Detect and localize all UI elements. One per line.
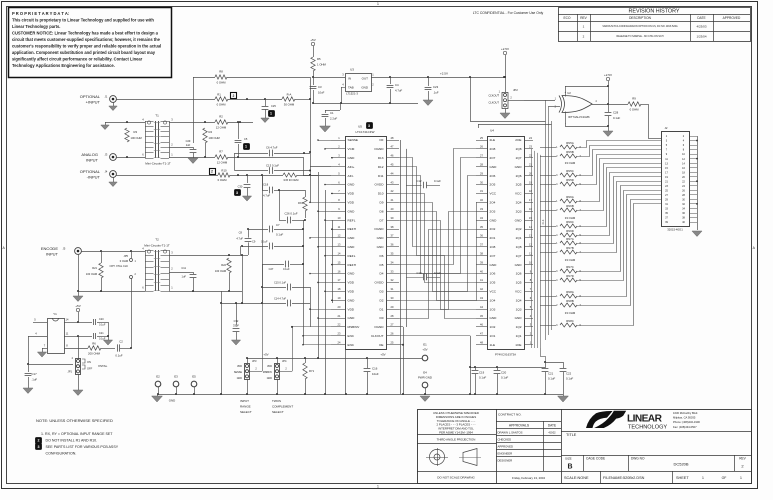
svg-text:U5: U5	[358, 124, 362, 128]
svg-text:PWR GND: PWR GND	[418, 376, 432, 380]
svg-text:P74VCX16373A: P74VCX16373A	[495, 353, 516, 357]
connector ground rail	[697, 136, 699, 228]
U5 pin 9 GND	[331, 211, 345, 213]
U4 pin 29 2O6	[476, 175, 487, 177]
U4 pin 39 GND	[476, 264, 487, 266]
svg-text:2Q4: 2Q4	[516, 201, 522, 205]
svg-text:GND: GND	[490, 263, 498, 267]
JP2 ground	[505, 109, 507, 114]
title block frame	[418, 410, 752, 484]
svg-text:IDT74ALVC1G86: IDT74ALVC1G86	[568, 115, 590, 119]
U5 pin 32 OVDD	[386, 282, 399, 284]
svg-text:VCC: VCC	[490, 290, 497, 294]
capacitor C1 2.2uF	[340, 103, 342, 110]
svg-text:1Q5: 1Q5	[516, 281, 522, 285]
svg-text:C13 0.1uF: C13 0.1uF	[266, 163, 279, 167]
svg-text:1/23/04: 1/23/04	[696, 34, 706, 38]
wire OGND route x403	[399, 326, 403, 328]
U4 pin 4 GND	[524, 318, 533, 320]
wire stub to U5 pin 12	[310, 237, 331, 239]
wire stub to U5 pin 1	[318, 140, 331, 142]
cap rail y367	[470, 367, 545, 369]
svg-text:+2.5V: +2.5V	[604, 73, 612, 77]
svg-text:JP4: JP4	[282, 359, 287, 363]
note box 1 at C5	[244, 144, 250, 150]
note box 2 at R10	[210, 169, 216, 175]
wire J3 to T1	[116, 157, 145, 159]
svg-text:4/2/02: 4/2/02	[548, 431, 556, 435]
svg-text:JP5: JP5	[124, 254, 129, 258]
svg-text:RX1: RX1	[298, 201, 304, 205]
resistor R4 100 OHM	[203, 128, 207, 143]
U4 pin 13 2Q1	[524, 237, 533, 239]
svg-text:SENSE: SENSE	[348, 138, 359, 142]
U4 pin 36 2O1	[476, 237, 487, 239]
svg-text:REFL: REFL	[348, 218, 356, 222]
svg-text:SIZE: SIZE	[565, 457, 572, 461]
U5 pin 47 OGND	[386, 148, 399, 150]
svg-text:1uF: 1uF	[182, 275, 187, 279]
svg-text:1: 1	[377, 485, 379, 489]
U4 pin 47 1O1	[476, 335, 487, 337]
svg-text:circuit that meets customer-su: circuit that meets customer-supplied spe…	[12, 37, 161, 42]
svg-text:R6: R6	[92, 342, 96, 346]
svg-text:DWG NO: DWG NO	[631, 457, 645, 461]
xor power top	[565, 86, 567, 97]
svg-text:R7: R7	[219, 150, 223, 154]
capacitor C4 4.7uF	[390, 77, 392, 84]
svg-text:CONFIGURATION.: CONFIGURATION.	[46, 452, 77, 456]
wire stub to U5 pin 19	[331, 300, 332, 302]
svg-text:1630 McCarthy Blvd.: 1630 McCarthy Blvd.	[673, 411, 698, 415]
svg-text:0.1uF: 0.1uF	[283, 267, 290, 271]
svg-text:E3: E3	[174, 374, 178, 378]
wire D bus row 8 to row 18	[399, 203, 476, 292]
svg-text:0.1uF: 0.1uF	[434, 179, 441, 183]
U5 pin 46 D13	[386, 157, 399, 159]
svg-text:D12: D12	[378, 165, 384, 169]
svg-text:2: 2	[211, 169, 213, 173]
svg-text:U4: U4	[490, 129, 494, 133]
svg-text:VCM: VCM	[348, 147, 355, 151]
svg-text:C20: C20	[501, 370, 507, 374]
svg-text:C5: C5	[244, 137, 248, 141]
+5V rail to E1	[247, 358, 421, 360]
capacitor C3 10uF	[310, 86, 317, 88]
svg-text:1Q1: 1Q1	[516, 334, 522, 338]
capacitor C17 .1uF	[28, 364, 30, 372]
svg-text:D5: D5	[380, 263, 384, 267]
svg-text:200 OHM: 200 OHM	[88, 352, 101, 356]
svg-text:C2: C2	[119, 340, 123, 344]
svg-text:ENC: ENC	[348, 343, 355, 347]
note box 2 at R1	[231, 93, 237, 99]
wire T2 pin2 to C11	[169, 272, 190, 274]
svg-text:R3: R3	[134, 130, 138, 134]
U5 pin 35 D6	[386, 255, 399, 257]
U3 TAB to rail	[341, 87, 345, 89]
wire vertical feed x318	[318, 172, 320, 358]
U5 pin 43 OVDD	[386, 184, 399, 186]
svg-text:-: -	[565, 121, 566, 125]
wire bundle vertical x534	[534, 151, 536, 348]
svg-text:C20: C20	[99, 318, 104, 321]
svg-text:VCC: VCC	[515, 192, 522, 196]
wire T1 pin3 to R2	[169, 122, 215, 124]
U5 pin 23 ENC	[331, 335, 345, 337]
wire branch x240	[240, 246, 242, 255]
U4 pin 26 2O8	[476, 148, 487, 150]
svg-text:significantly affect circuit p: significantly affect circuit performance…	[12, 56, 143, 61]
resistor RX1	[303, 197, 307, 211]
note box 2	[36, 438, 42, 444]
U5 pin 34 D5	[386, 264, 399, 266]
capacitor C30 to ground	[247, 175, 249, 183]
svg-text:D2: D2	[380, 298, 384, 302]
svg-text:INPUT: INPUT	[240, 399, 249, 403]
svg-text:APPROVED: APPROVED	[498, 445, 514, 449]
svg-text:AIN+: AIN+	[348, 165, 355, 169]
U4 pin 23 2Q8	[524, 148, 533, 150]
wire D bus row 9 to row 19	[399, 212, 476, 301]
U4 pin 18 VCC	[524, 193, 533, 195]
svg-text:P R O P R I E T A R Y D A T: P R O P R I E T A R Y D A T A:	[12, 11, 69, 16]
svg-text:COMPLEMENT: COMPLEMENT	[272, 405, 293, 409]
U5 pin 44 D11	[386, 175, 399, 177]
U4 pin 30 2O5	[476, 184, 487, 186]
svg-text:1Q6: 1Q6	[516, 272, 522, 276]
wire D bus row 15 to row 2	[399, 149, 476, 265]
svg-text:D10: D10	[378, 192, 384, 196]
jumper JP5 OPT XTAL CLK	[131, 251, 133, 258]
svg-text:C16: C16	[372, 366, 378, 370]
svg-text:GND: GND	[348, 209, 356, 213]
U4 pin 27 2O7	[476, 157, 487, 159]
ground J5	[73, 296, 83, 302]
svg-text:OFF: OFF	[87, 366, 93, 370]
svg-text:R-B 30 OHM: R-B 30 OHM	[284, 178, 299, 182]
svg-text:.1uF: .1uF	[433, 91, 439, 95]
svg-text:GND: GND	[348, 236, 356, 240]
capacitor C20b 0.1uF	[497, 367, 499, 370]
svg-text:2: 2	[233, 94, 235, 98]
U5 pin 28 D0	[386, 318, 399, 320]
proprietary data notice box	[9, 8, 172, 78]
U5 pin 15 REFH	[331, 264, 345, 266]
U4 pin 42 VCC	[476, 291, 487, 293]
svg-text:0.1uF: 0.1uF	[115, 354, 122, 358]
U4 pin 40 1O6	[476, 273, 487, 275]
svg-text:AIN-: AIN-	[348, 174, 354, 178]
ground C29	[188, 158, 198, 164]
wire stub to U5 pin 11	[331, 229, 332, 231]
bus vertical x400	[400, 140, 402, 394]
U5 pin 8 VDD	[331, 202, 345, 204]
svg-text:1uF: 1uF	[186, 143, 191, 147]
svg-text:C27: C27	[269, 267, 274, 271]
svg-text:U3: U3	[350, 68, 354, 72]
svg-text:J2: J2	[665, 126, 668, 130]
svg-text:RN5A: RN5A	[566, 141, 574, 145]
U4 pin 43 1O4	[476, 300, 487, 302]
U5 pin 48 OF	[386, 140, 399, 142]
svg-text:+5V: +5V	[310, 38, 315, 42]
svg-text:PER ASME Y14.5M -1994: PER ASME Y14.5M -1994	[439, 431, 473, 435]
note box 3 at C30	[235, 190, 241, 196]
wire R7 right	[228, 157, 303, 159]
svg-text:1. RX, RY = OPTIONAL INPUT RA: 1. RX, RY = OPTIONAL INPUT RANGE SET	[41, 432, 113, 436]
connector J2 32015-40G1	[662, 132, 690, 227]
U4 pin 44 1O3	[476, 309, 487, 311]
capacitor C2 0.1uF	[101, 348, 115, 350]
svg-text:C7: C7	[276, 223, 280, 227]
junction dots on ground rail	[157, 393, 159, 395]
svg-text:1O5: 1O5	[490, 281, 496, 285]
svg-text:FILENAME:520Br2.DSN: FILENAME:520Br2.DSN	[603, 476, 645, 480]
svg-text:GND: GND	[237, 377, 243, 380]
svg-text:TITLE: TITLE	[566, 433, 577, 437]
svg-text:C12: C12	[417, 179, 422, 183]
svg-text:SENSE: SENSE	[234, 371, 243, 374]
svg-text:E1: E1	[423, 342, 427, 346]
wire J1 to R1	[116, 99, 215, 101]
Y1 pin 8 to R6	[64, 348, 88, 350]
svg-text:RN8C: RN8C	[566, 319, 574, 323]
svg-text:LTC CONFIDENTIAL - For Custome: LTC CONFIDENTIAL - For Customer Use Only	[473, 11, 544, 15]
svg-text:LTC1741CFW: LTC1741CFW	[356, 130, 375, 134]
svg-text:4.7uF: 4.7uF	[236, 236, 243, 240]
U5 pin 30 D2	[386, 300, 399, 302]
U4 bottom route to caps	[540, 348, 542, 356]
U4 pin 46 1O2	[476, 326, 487, 328]
svg-text:Mini-Circuits-T1-1T: Mini-Circuits-T1-1T	[145, 162, 171, 166]
wire stub to U5 pin 22	[292, 326, 331, 328]
jumper JP4 twos complement select	[275, 364, 280, 380]
svg-text:1O2: 1O2	[490, 325, 496, 329]
svg-text:100 OHM: 100 OHM	[209, 136, 220, 140]
svg-text:.1uF: .1uF	[32, 378, 38, 382]
svg-text:100 OHM: 100 OHM	[131, 136, 142, 140]
svg-text:VDD: VDD	[348, 201, 355, 205]
ground C17	[23, 388, 33, 394]
JP1 ON OFF labels	[82, 359, 85, 363]
svg-text:D7: D7	[380, 218, 384, 222]
svg-text:Phone: (408)432-1900: Phone: (408)432-1900	[673, 420, 700, 424]
upper input rail to T1	[105, 122, 145, 124]
wire stub to U5 pin 15	[331, 264, 332, 266]
svg-text:INPUT: INPUT	[86, 158, 99, 163]
svg-text:C21: C21	[548, 371, 554, 375]
U4 pin 17 2Q4	[524, 202, 533, 204]
title cell	[561, 431, 751, 433]
svg-text:0.1uF: 0.1uF	[479, 376, 486, 380]
svg-text:CAGE CODE: CAGE CODE	[586, 457, 605, 461]
svg-text:33pF: 33pF	[233, 324, 239, 328]
svg-text:Technology Applications Engine: Technology Applications Engineering for …	[12, 63, 115, 68]
ground rail bottom	[157, 394, 563, 396]
U4 pin 33 2O3	[476, 211, 487, 213]
svg-text:OVDD: OVDD	[375, 281, 385, 285]
svg-text:10uF: 10uF	[372, 372, 379, 376]
xor input 2 wire	[549, 106, 561, 108]
U4 pin 22 2Q7	[524, 157, 533, 159]
ground symbol rail	[152, 396, 163, 402]
svg-text:ENGINEER: ENGINEER	[498, 452, 513, 456]
svg-text:1 OHM: 1 OHM	[317, 63, 327, 67]
ground C23	[423, 100, 433, 106]
U5 pin 17 VDD	[331, 282, 345, 284]
svg-text:RN6D: RN6D	[566, 229, 574, 233]
svg-text:E4: E4	[423, 370, 427, 374]
U4 pin 35 2O2	[476, 229, 487, 231]
ground C20 C21	[108, 322, 110, 340]
U5 pin 26 CLKOUT	[386, 335, 399, 337]
wire vertical feed x332	[332, 220, 334, 303]
U5 pin 5 AIN-	[331, 175, 345, 177]
JP1 ground	[78, 374, 80, 390]
wire D bus row 4 to row 14	[399, 167, 476, 256]
U4 pin 9 1Q6	[524, 273, 533, 275]
svg-text:GND: GND	[490, 165, 498, 169]
svg-text:R1: R1	[217, 92, 221, 96]
svg-text:RY1: RY1	[309, 369, 315, 373]
resistor R-B 30 OHM	[283, 173, 297, 177]
svg-text:C21: C21	[99, 332, 104, 335]
resistor R22 100 OHM	[227, 258, 231, 273]
U4 pin 21 GND	[524, 166, 533, 168]
svg-text:1: 1	[740, 476, 742, 480]
svg-text:0.1uF: 0.1uF	[261, 240, 268, 244]
svg-text:T2: T2	[155, 238, 159, 242]
svg-text:D8: D8	[380, 209, 384, 213]
U5 pin 19 GND	[331, 300, 345, 302]
svg-text:C14 4.7uF: C14 4.7uF	[274, 296, 287, 300]
svg-text:+5V: +5V	[380, 353, 385, 357]
svg-text:RN5B: RN5B	[566, 150, 574, 154]
U4 pin 32 2O4	[476, 202, 487, 204]
wire RN6D to connector	[577, 173, 661, 236]
wire RN6B to connector	[577, 164, 661, 211]
U4 pin 31 VCC	[476, 193, 487, 195]
wire horizontal y303	[221, 303, 242, 305]
wire bundle vertical x537	[537, 153, 539, 348]
+2.5V at XOR	[606, 77, 609, 80]
svg-text:4/23/03: 4/23/03	[696, 24, 706, 28]
svg-text:2O7: 2O7	[490, 156, 496, 160]
wire stub to U5 pin 6	[325, 184, 331, 186]
svg-text:+5V: +5V	[422, 348, 427, 352]
svg-text:2O1: 2O1	[490, 236, 496, 240]
xor output wire	[592, 104, 628, 106]
ground C1	[320, 126, 331, 132]
+2.5V at JP2	[503, 51, 506, 54]
clk bus verticals	[545, 100, 547, 340]
svg-text:C19: C19	[479, 370, 485, 374]
U5 pin 29 D1	[386, 309, 399, 311]
svg-text:0.1uF: 0.1uF	[276, 232, 283, 236]
svg-text:JP2: JP2	[513, 88, 518, 92]
U4 pin 45 GND	[476, 318, 487, 320]
svg-text:OE: OE	[379, 343, 383, 347]
svg-text:DC520B: DC520B	[673, 461, 688, 466]
wire D bus row 20 to row 9	[399, 212, 476, 310]
svg-text:R21: R21	[92, 266, 97, 270]
svg-text:1O6: 1O6	[490, 272, 496, 276]
svg-text:GND: GND	[348, 272, 356, 276]
svg-text:OF: OF	[379, 138, 383, 142]
capacitor C29 1uF	[169, 147, 193, 149]
svg-text:GND: GND	[348, 316, 356, 320]
U4 pin 6 1Q4	[524, 300, 533, 302]
wire stub to U5 pin 21	[318, 318, 331, 320]
U4 pin 48 1LE	[476, 344, 487, 346]
wire R5 to U3	[313, 77, 345, 79]
U5 pin 16 GND	[331, 273, 345, 275]
wire vertical feed x310	[310, 77, 312, 202]
svg-text:RN7A: RN7A	[566, 237, 574, 241]
wire RN7D to connector	[577, 191, 661, 281]
wire T2 pin3 out	[169, 255, 242, 257]
svg-text:D1: D1	[380, 307, 384, 311]
svg-text:33 OHM: 33 OHM	[565, 258, 576, 262]
svg-text:ANALOG: ANALOG	[81, 152, 98, 157]
svg-text:C28: C28	[613, 110, 619, 114]
wire J5 to T2	[81, 251, 145, 253]
capacitor C12 0.1uF	[406, 185, 421, 187]
svg-text:2O8: 2O8	[490, 147, 496, 151]
svg-text:D6: D6	[380, 254, 384, 258]
svg-text:OPT. XTAL CLK: OPT. XTAL CLK	[110, 264, 129, 268]
svg-text:2O3: 2O3	[490, 209, 496, 213]
wire RN7C to connector	[577, 186, 661, 272]
wire RN8A to connector	[577, 195, 661, 297]
svg-text:THIRD ANGLE PROJECTION: THIRD ANGLE PROJECTION	[437, 438, 476, 442]
svg-text:This circuit is proprietary to: This circuit is proprietary to Linear Te…	[12, 18, 154, 23]
svg-text:C8: C8	[239, 230, 243, 234]
Linear Technology logo	[586, 411, 613, 428]
svg-text:SELECT: SELECT	[240, 410, 252, 414]
svg-text:C17: C17	[32, 372, 38, 376]
svg-text:NOTE: UNLESS OTHERWISE SPECIFI: NOTE: UNLESS OTHERWISE SPECIFIED	[36, 418, 113, 423]
svg-text:VDD: VDD	[348, 307, 355, 311]
jumper JP2 CLKOUT	[502, 93, 508, 109]
svg-text:RN8B: RN8B	[566, 299, 574, 303]
svg-text:XSTAL: XSTAL	[98, 364, 108, 368]
jumper JP3 input range select	[245, 364, 250, 380]
route from JP2 region to clk bus	[470, 77, 472, 121]
wire R8 top rail	[193, 77, 215, 79]
wire stub to U5 pin 14	[325, 255, 331, 257]
svg-text:3: 3	[368, 124, 370, 128]
svg-text:Milpitas, CA 95035: Milpitas, CA 95035	[673, 416, 696, 420]
svg-text:B: B	[567, 463, 572, 470]
wire stub to U5 pin 18	[325, 291, 331, 293]
wire vertical feed x303	[303, 157, 305, 176]
U3 ground rail	[313, 103, 418, 105]
svg-text:OF: OF	[722, 476, 727, 480]
svg-text:C4: C4	[395, 83, 399, 87]
svg-text:DRAWN L.SANTOS: DRAWN L.SANTOS	[498, 431, 523, 435]
U4 pin 5 1Q3	[524, 309, 533, 311]
svg-text:+2.5V: +2.5V	[501, 47, 509, 51]
U4 pin 11 1Q7	[524, 255, 533, 257]
svg-text:4.7uF: 4.7uF	[395, 89, 402, 93]
svg-text:OPTIONAL: OPTIONAL	[80, 169, 101, 174]
svg-text:33 OHM: 33 OHM	[565, 161, 576, 165]
svg-text:0 OHM: 0 OHM	[218, 178, 228, 182]
capacitor C16 10uF	[367, 358, 369, 368]
svg-text:1: 1	[245, 145, 247, 149]
